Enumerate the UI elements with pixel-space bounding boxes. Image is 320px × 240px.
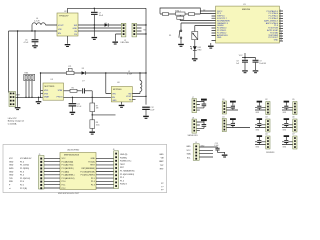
capacitor C8: [236, 58, 248, 71]
svg-text:SWD: SWD: [9, 168, 14, 170]
svg-text:P1.5(SCLK): P1.5(SCLK): [20, 178, 30, 180]
svg-text:SENSORS: SENSORS: [188, 135, 199, 137]
svg-text:VCC: VCC: [239, 55, 244, 57]
inductor L4: [32, 18, 57, 31]
resistor R7: [90, 103, 99, 112]
ground U1 pin: [210, 43, 212, 45]
op-amp U4 boost: [111, 82, 132, 102]
svg-text:P1.6(SCL/SIMO): P1.6(SCL/SIMO): [81, 175, 96, 177]
capacitor C9: [253, 58, 267, 71]
op-amp U1 MCU: [216, 4, 280, 43]
svg-text:LAUNCHPAD: LAUNCHPAD: [67, 149, 80, 152]
svg-text:P2.0: P2.0: [62, 181, 66, 183]
svg-text:J15: J15: [292, 99, 295, 101]
svg-text:GND: GND: [217, 37, 222, 39]
svg-text:to 100mA: to 100mA: [8, 122, 17, 125]
diode D1: [105, 23, 122, 27]
svg-text:GND: GND: [73, 28, 78, 30]
capacitor C13 + gnd bar: [197, 99, 207, 111]
capacitor C11 under wire: [69, 97, 83, 112]
svg-text:C2: C2: [203, 9, 205, 11]
svg-text:S?: S?: [161, 183, 163, 185]
svg-text:11: 11: [280, 35, 282, 37]
svg-text:0.1uF: 0.1uF: [214, 145, 218, 147]
unit row1 col3: [282, 99, 297, 115]
wire xtal lower: [180, 19, 211, 20]
svg-text:GND: GND: [9, 161, 14, 163]
svg-text:T?: T?: [161, 186, 163, 188]
resistor R8: [90, 120, 100, 129]
capacitor C7 output: [91, 8, 104, 37]
svg-text:P1.6(SCL/MISO): P1.6(SCL/MISO): [120, 174, 135, 176]
svg-text:GND (S): GND (S): [120, 154, 128, 156]
wire VIN: [9, 30, 58, 32]
jumper JP1: [67, 66, 75, 75]
svg-text:8: 8: [280, 27, 281, 29]
svg-text:GND: GND: [274, 40, 279, 42]
connector J7: [192, 97, 197, 112]
svg-text:MSP430: MSP430: [242, 9, 251, 11]
wire row4 to ground: [116, 34, 122, 41]
svg-text:TEST: TEST: [120, 164, 126, 166]
svg-text:P2.5: P2.5: [91, 178, 95, 180]
LED D2: [190, 40, 202, 58]
svg-text:4.7uH: 4.7uH: [127, 73, 133, 75]
svg-text:13: 13: [280, 40, 282, 42]
connector J8: [192, 118, 197, 133]
ground under S1: [178, 44, 184, 45]
wire trimpot row: [195, 26, 212, 32]
svg-text:GND: GND: [112, 100, 117, 102]
wire VBAT rail1: [8, 31, 10, 93]
wire ADC tap: [92, 114, 115, 116]
svg-text:MSP-EXP430G2-LPKIT: MSP-EXP430G2-LPKIT: [58, 193, 80, 195]
svg-text:PG: PG: [74, 34, 77, 36]
left label columns: [9, 158, 14, 190]
svg-text:U4: U4: [117, 82, 119, 84]
svg-text:P1.3(A3): P1.3(A3): [62, 170, 70, 173]
ground under R8: [89, 132, 95, 133]
unit row1 col2: [255, 99, 270, 115]
op-amp U5 MSP430: [60, 153, 96, 190]
svg-text:SW: SW: [128, 93, 131, 95]
pin stubs U1 left: [212, 11, 216, 41]
svg-text:TPS61097: TPS61097: [59, 15, 69, 17]
wires J9 right: [199, 147, 217, 157]
svg-text:VDD: VDD: [44, 90, 49, 92]
svg-text:VBAT: VBAT: [44, 96, 50, 99]
svg-text:10uF/6V: 10uF/6V: [259, 63, 267, 65]
svg-text:12: 12: [280, 37, 282, 39]
resistor R6 + cap C10 STAT chain: [64, 88, 93, 94]
svg-text:P1.0: P1.0: [20, 161, 24, 163]
svg-text:D3: D3: [82, 68, 84, 70]
svg-text:VCC: VCC: [62, 158, 67, 160]
switch S1: [169, 30, 182, 44]
op-amp U2 boost IC: [57, 11, 78, 36]
wire top rail: [68, 8, 147, 13]
capacitor C14 + gnd bar: [197, 119, 207, 131]
connector J6 header right: [113, 149, 119, 188]
svg-text:P1.1(TXD): P1.1(TXD): [20, 165, 29, 167]
svg-text:P2.1: P2.1: [20, 185, 24, 187]
svg-text:P2.2 (B): P2.2 (B): [20, 188, 27, 190]
svg-text:LiPo 3.7V: LiPo 3.7V: [8, 118, 17, 120]
ground under rail2: [17, 97, 19, 107]
svg-text:P2.0: P2.0: [20, 181, 24, 183]
wire charger input: [16, 96, 44, 98]
svg-text:P2.3: P2.3: [91, 185, 95, 187]
svg-text:VCC: VCC: [187, 150, 192, 152]
resistor network RN1: [24, 73, 35, 81]
svg-text:J11: J11: [222, 117, 225, 119]
VCC node under U1: [239, 53, 256, 58]
svg-text:VCC: VCC: [9, 158, 14, 160]
unit row2 col2: [255, 117, 270, 133]
svg-text:RXD: RXD: [9, 181, 14, 183]
svg-text:Battery charge set: Battery charge set: [8, 120, 25, 123]
ground at x38: [38, 97, 40, 101]
svg-text:SCL: SCL: [187, 157, 191, 159]
ground U4: [121, 102, 123, 105]
svg-text:GND: GND: [9, 175, 14, 177]
svg-text:P1.5(A5/SCLK): P1.5(A5/SCLK): [62, 177, 75, 180]
trimpot R5: [192, 32, 198, 40]
svg-text:J14: J14: [265, 134, 268, 136]
wire VOUT to rail: [132, 95, 146, 97]
capacitor C6 input: [24, 30, 39, 45]
svg-text:P2.4: P2.4: [91, 181, 95, 183]
diode D3: [82, 68, 86, 83]
svg-text:MCP1640: MCP1640: [113, 89, 121, 91]
svg-text:P1.4(A4/SSEL): P1.4(A4/SSEL): [62, 174, 75, 177]
svg-text:RST(NMI/SBW): RST(NMI/SBW): [81, 168, 95, 170]
svg-text:VCC/AVD DV: VCC/AVD DV: [20, 157, 32, 160]
ground under U2: [67, 36, 69, 44]
svg-text:5: 5: [280, 20, 281, 22]
svg-text:DB9-CAN: DB9-CAN: [121, 41, 130, 44]
svg-text:J10: J10: [222, 99, 225, 101]
resistor R4: [189, 13, 195, 16]
svg-text:VM: VM: [161, 158, 164, 160]
svg-text:TXD: TXD: [9, 178, 13, 180]
svg-text:U3: U3: [51, 79, 53, 81]
svg-text:D?: D?: [82, 81, 84, 83]
svg-text:VOUT: VOUT: [58, 25, 64, 27]
wire U3 left pins: [41, 90, 44, 93]
svg-text:VIN: VIN: [58, 29, 62, 31]
unit row1 col1: [222, 99, 238, 114]
main VCC vertical rail: [145, 8, 147, 104]
svg-text:4.7uF: 4.7uF: [24, 42, 30, 44]
svg-text:9: 9: [280, 30, 281, 32]
svg-text:P1.5: P1.5: [120, 177, 124, 179]
svg-text:DRIVERS: DRIVERS: [266, 152, 275, 154]
wires U5 to J6: [96, 158, 114, 188]
ground under C7: [92, 37, 98, 38]
ground under LED: [192, 58, 198, 59]
svg-text:J17: J17: [292, 134, 295, 136]
svg-text:P2.2: P2.2: [62, 188, 66, 190]
svg-text:S1: S1: [169, 35, 171, 37]
svg-text:P1.2(A2/RXD): P1.2(A2/RXD): [62, 167, 74, 170]
wire vertical feed U3: [40, 73, 42, 97]
svg-text:GND: GND: [159, 154, 164, 156]
svg-text:P1.4: P1.4: [20, 175, 24, 177]
wire 5V charge rail: [41, 72, 147, 74]
wire crystal loop: [160, 8, 200, 14]
wires J5 to U5: [44, 158, 60, 188]
svg-text:MSP430G2553: MSP430G2553: [64, 154, 80, 156]
svg-text:P2(S) G: P2(S) G: [120, 184, 127, 186]
connector J4 battery: [9, 92, 21, 107]
svg-text:3: 3: [280, 15, 281, 17]
svg-text:VOUT: VOUT: [126, 96, 132, 98]
svg-text:4: 4: [280, 17, 281, 19]
svg-text:P1.7(SDA/SOMI): P1.7(SDA/SOMI): [80, 170, 95, 173]
pin stubs U1 right: [279, 11, 283, 41]
unit row3 col2: [255, 134, 270, 150]
svg-text:GND: GND: [91, 158, 96, 160]
svg-text:6: 6: [280, 22, 281, 24]
svg-text:GND: GND: [9, 165, 14, 167]
svg-text:P1.3: P1.3: [20, 171, 24, 173]
frame: [3, 145, 167, 193]
svg-text:P2(SEL): P2(SEL): [120, 157, 128, 159]
unit row2 col1: [222, 117, 250, 132]
svg-text:TEST: TEST: [90, 165, 96, 167]
svg-text:SW: SW: [74, 25, 77, 27]
inductor L5: [127, 71, 142, 94]
wire U2 out rows: [78, 25, 121, 31]
svg-text:10: 10: [280, 32, 282, 34]
resistor R3: [163, 13, 169, 16]
connector J9 I2C: [193, 142, 199, 160]
svg-text:MCP73831: MCP73831: [45, 86, 56, 88]
wires J3 right: [137, 25, 146, 34]
svg-text:JP1: JP1: [68, 66, 71, 68]
svg-text:P1.1(A1/TXD): P1.1(A1/TXD): [62, 164, 74, 167]
ground under C6: [32, 45, 38, 46]
wire divider top: [91, 91, 93, 103]
wire charger out to boost: [64, 96, 112, 98]
op-amp U3 charger: [43, 79, 64, 100]
capacitor C15: [214, 143, 224, 155]
svg-text:STAT: STAT: [58, 89, 64, 92]
svg-text:PROG: PROG: [57, 97, 63, 99]
svg-text:P2.1: P2.1: [62, 185, 66, 187]
ground under J2: [112, 42, 118, 43]
wire boost input corner: [106, 73, 112, 94]
right label columns: [120, 154, 135, 186]
svg-text:P2(SEL/CTL): P2(SEL/CTL): [120, 161, 132, 163]
wire switch row: [181, 23, 212, 30]
svg-text:P2.6(X): P2.6(X): [88, 161, 95, 163]
wire FB stub: [132, 99, 135, 101]
svg-text:J16: J16: [292, 117, 295, 119]
unit row3 col3: [282, 134, 297, 150]
svg-text:1: 1: [280, 10, 281, 12]
wires xtal to U1: [200, 11, 211, 14]
svg-text:2.2uH: 2.2uH: [34, 21, 40, 23]
svg-text:GND: GND: [9, 171, 14, 173]
svg-text:P1.0(A0/CA0): P1.0(A0/CA0): [62, 160, 74, 163]
connector J5 header left: [39, 154, 45, 189]
crystal Y1: [175, 9, 185, 19]
svg-text:7: 7: [280, 25, 281, 27]
wires RN1 down: [26, 81, 32, 98]
svg-text:100k: 100k: [96, 125, 100, 127]
connector J3 CAN right: [132, 23, 137, 37]
svg-text:P1.7(SDA/MOSI): P1.7(SDA/MOSI): [120, 170, 135, 173]
svg-text:J12: J12: [265, 99, 268, 101]
svg-text:P1.2(RXD): P1.2(RXD): [20, 168, 30, 170]
svg-text:2: 2: [280, 12, 281, 14]
note text block: [8, 118, 25, 125]
wire rail2: [17, 31, 19, 97]
svg-text:F?: F?: [161, 190, 163, 192]
connector J2 CAN left: [121, 23, 126, 37]
svg-text:GND: GND: [186, 146, 191, 148]
svg-text:P1.4: P1.4: [120, 180, 124, 182]
svg-text:J13: J13: [265, 117, 268, 119]
capacitor C12 output: [142, 107, 155, 116]
unit row2 col3: [282, 117, 297, 133]
svg-text:VSS: VSS: [44, 93, 49, 95]
